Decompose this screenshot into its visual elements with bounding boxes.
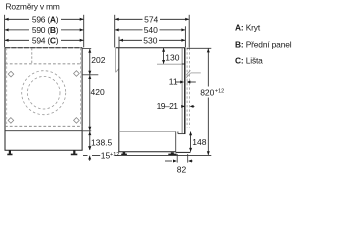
svg-text:148: 148	[192, 137, 206, 147]
screw diamond top-left	[8, 71, 14, 77]
svg-text:19–21: 19–21	[157, 101, 179, 111]
front view left extension line	[4, 15, 6, 48]
svg-text:82: 82	[177, 165, 187, 175]
front view plinth solid line	[5, 130, 82, 132]
dimension 420	[88, 75, 105, 131]
side view top edge	[116, 47, 185, 49]
svg-text:590 (B): 590 (B)	[32, 25, 59, 35]
chain tick 420/138.5	[83, 130, 92, 132]
side view 530 left extension line	[118, 37, 120, 48]
side view 574 right extension line	[188, 15, 190, 48]
furniture door rear dashed line	[186, 48, 188, 128]
furniture door leader	[191, 72, 201, 74]
side view plinth top gray line	[119, 131, 176, 133]
dimension 19-21	[157, 101, 195, 111]
dimension 574	[115, 15, 189, 25]
side view left extension line	[114, 15, 116, 48]
side view bottom edge front part	[176, 151, 191, 153]
side view panel step vertical	[177, 132, 179, 134]
front view left edge	[4, 48, 6, 151]
130 bottom gray tick	[157, 63, 182, 65]
side view front foot	[168, 152, 176, 155]
front view plinth dashed line	[5, 125, 82, 127]
side view rear foot	[121, 152, 127, 155]
dimension 530	[119, 35, 185, 45]
furniture door hatch stroke 1	[186, 70, 190, 75]
svg-text:+12: +12	[215, 88, 224, 94]
furniture door front dashed line	[189, 48, 191, 128]
door inner circle (dashed)	[27, 76, 60, 109]
side view rear upper light line	[115, 48, 117, 73]
dimension 130	[162, 48, 180, 64]
svg-text:540: 540	[144, 25, 158, 35]
side view bottom edge rear part	[118, 151, 175, 153]
front view right foot	[71, 150, 78, 155]
svg-text:202: 202	[91, 55, 105, 65]
svg-text:A: Kryt: A: Kryt	[235, 23, 261, 33]
front view bottom edge	[5, 149, 83, 151]
svg-text:B: Přední panel: B: Přední panel	[235, 39, 292, 49]
dimension 202	[88, 49, 105, 75]
front view inner dashed vertical left	[6, 48, 8, 126]
front view left foot	[7, 150, 12, 155]
svg-text:138.5: 138.5	[91, 138, 113, 148]
dimension 596 (A)	[5, 15, 84, 25]
screw diamond bottom-right	[74, 118, 80, 124]
front view cover bottom dashed line	[5, 63, 82, 65]
front view top edge (dashed)	[5, 47, 82, 49]
side view casing front edge	[181, 48, 183, 134]
side view rear diagonal jog	[116, 69, 119, 73]
front view right edge	[81, 48, 83, 151]
svg-text:820: 820	[200, 88, 214, 98]
dimension 590 (B)	[5, 25, 84, 35]
door outer circle (dashed)	[22, 71, 66, 115]
chain tick 202/420	[83, 74, 99, 76]
side view panel bottom edge	[178, 133, 186, 135]
furniture door hatch stroke 2	[186, 73, 190, 78]
side view front panel face	[184, 48, 186, 134]
dimension 11	[169, 76, 196, 86]
dimension 594 (C)	[5, 35, 84, 45]
820 top extension line	[187, 47, 212, 49]
dimension 148	[189, 131, 207, 151]
front view drawer divider dashed vertical	[31, 48, 33, 64]
dimension 540	[115, 25, 186, 35]
svg-text:574: 574	[144, 15, 158, 25]
svg-text:C: Lišta: C: Lišta	[235, 55, 263, 65]
svg-text:Rozměry v mm: Rozměry v mm	[6, 1, 60, 11]
svg-text:596 (A): 596 (A)	[32, 15, 59, 25]
dimension 15+12	[83, 146, 119, 161]
screw diamond bottom-left	[8, 118, 14, 124]
dimension 820+12	[200, 49, 224, 156]
svg-text:420: 420	[91, 87, 105, 97]
svg-text:530: 530	[143, 35, 157, 45]
chain tick top	[83, 48, 92, 50]
dimension 82	[165, 154, 193, 175]
svg-text:130: 130	[165, 53, 179, 63]
screw diamond top-right	[74, 71, 80, 77]
front view right extension line	[83, 15, 85, 48]
cover bottom tick	[182, 63, 186, 65]
floor line	[115, 154, 212, 156]
side view 540/530 right extension line	[184, 26, 186, 47]
svg-text:594 (C): 594 (C)	[32, 35, 59, 45]
dimension 138.5	[88, 131, 112, 150]
front view inner dashed vertical right	[80, 48, 82, 126]
svg-text:11: 11	[169, 76, 178, 86]
side view plinth front edge	[175, 132, 177, 153]
side view rear edge	[118, 48, 120, 152]
